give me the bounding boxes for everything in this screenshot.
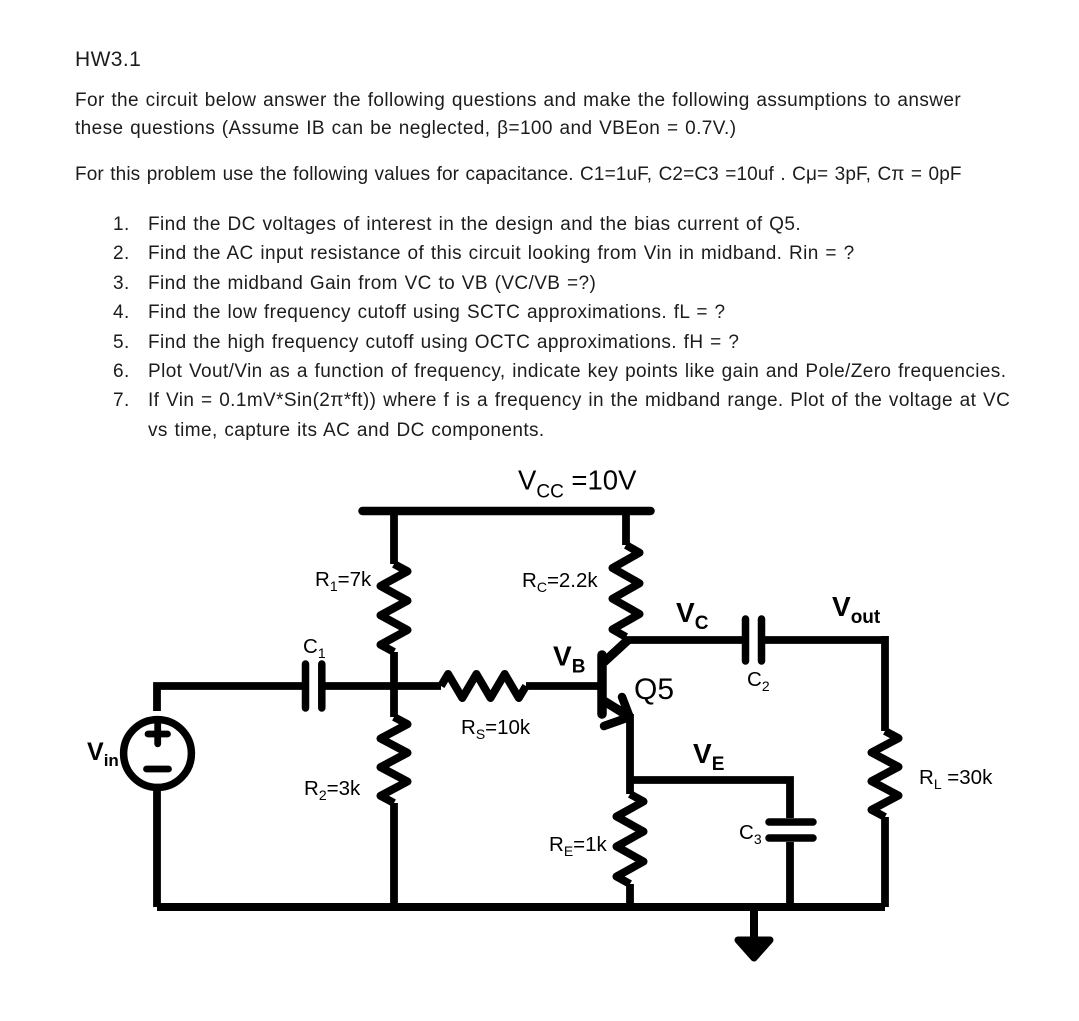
label C3 xyxy=(739,821,762,847)
label Q5 xyxy=(634,673,674,706)
label RC=2.2k xyxy=(522,569,598,595)
ground rail (bottom wire) xyxy=(157,903,885,911)
svg-text:RE=1k: RE=1k xyxy=(549,833,608,859)
label Vin xyxy=(87,738,119,770)
svg-text:R1=7k: R1=7k xyxy=(315,568,372,594)
wire: R2 bottom to ground rail xyxy=(390,803,398,907)
label Vout xyxy=(832,591,881,628)
wire: Vin bottom to ground rail xyxy=(153,790,161,907)
svg-text:VB: VB xyxy=(553,641,585,678)
capacitor C1 xyxy=(306,664,322,708)
wire: RE bottom to ground rail xyxy=(626,884,634,907)
label VB xyxy=(553,641,585,678)
resistor RC xyxy=(613,545,640,637)
wire: RL bottom to ground rail xyxy=(881,817,889,907)
wire: emitter down to VE node and RE xyxy=(626,714,634,794)
svg-text:Q5: Q5 xyxy=(634,673,674,706)
voltage source Vin xyxy=(124,720,192,788)
label R2=3k xyxy=(304,777,361,803)
svg-text:VE: VE xyxy=(693,738,724,775)
wire: rail to RC top xyxy=(622,508,630,545)
label RS=10k xyxy=(461,716,531,742)
wire: Vout corner down to RL xyxy=(881,636,889,731)
transistor Q5 xyxy=(602,640,630,726)
wire: C3 bottom to ground rail xyxy=(786,842,794,907)
label VE xyxy=(693,738,724,775)
wire: R1 bottom to C1/RS node and on to R2 xyxy=(390,652,398,717)
wire: rail to R1 top xyxy=(390,508,398,564)
capacitor C2 xyxy=(746,619,762,661)
svg-text:C3: C3 xyxy=(739,821,762,847)
wire: C2 to Vout corner xyxy=(765,636,885,644)
label RE=1k xyxy=(549,833,608,859)
svg-text:VC: VC xyxy=(676,597,709,634)
label C2 xyxy=(747,668,770,694)
svg-text:C2: C2 xyxy=(747,668,770,694)
resistor RS xyxy=(441,674,526,698)
power rail Vcc xyxy=(363,507,651,516)
wire: VC node horizontal to C2 xyxy=(626,636,742,644)
svg-text:RL =30k: RL =30k xyxy=(919,766,993,792)
resistor RE xyxy=(617,794,644,884)
ground symbol xyxy=(738,907,770,958)
label C1 xyxy=(303,635,326,661)
resistor RL xyxy=(872,731,899,817)
svg-text:RS=10k: RS=10k xyxy=(461,716,531,742)
wire: Vin top corner to C1 left plate xyxy=(157,686,302,711)
svg-text:C1: C1 xyxy=(303,635,326,661)
label Vcc =10V xyxy=(518,465,637,503)
wire: C1 right plate to bias node xyxy=(325,682,441,690)
label R1=7k xyxy=(315,568,372,594)
label RL=30k xyxy=(919,766,993,792)
resistor R1 xyxy=(381,564,408,652)
svg-text:RC=2.2k: RC=2.2k xyxy=(522,569,598,595)
wire: collector node down to emitter diag / collector to VC line xyxy=(622,637,630,640)
resistor R2 xyxy=(381,717,408,803)
svg-text:R2=3k: R2=3k xyxy=(304,777,361,803)
svg-text:Vout: Vout xyxy=(832,591,881,628)
wire: VE node horizontal to C3 xyxy=(630,780,790,818)
capacitor C3 xyxy=(769,822,813,838)
wire: RS to Q5 base xyxy=(526,682,600,690)
svg-text:Vin: Vin xyxy=(87,738,119,770)
label VC xyxy=(676,597,709,634)
svg-text:VCC =10V: VCC =10V xyxy=(518,465,637,503)
